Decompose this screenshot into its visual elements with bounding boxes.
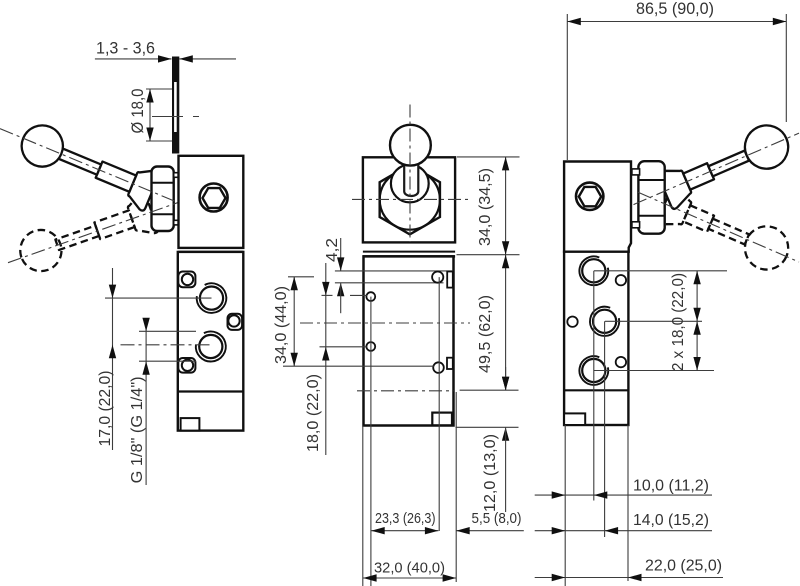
right ext: right edge vertical	[627, 425, 629, 581]
dim 86,5(90,0): arrow right	[773, 18, 787, 25]
dim 14,0(15,2): arrow left	[605, 527, 619, 534]
left view: mounting hole bottom-left	[182, 360, 193, 371]
dim 17,0: center line port2	[121, 344, 212, 346]
left view: dashed lever axis center line	[8, 201, 184, 263]
left view: solid lever axis center line	[0, 129, 185, 206]
dim 18,0(22,0): dim line	[325, 263, 327, 455]
dim dia18: arrow down	[146, 128, 153, 142]
dim 1,3-3,6: arrow left	[158, 55, 172, 62]
dim 34,0(34,5): ext mid	[457, 254, 520, 256]
dim 14,0(15,2): arrow right	[552, 527, 566, 534]
dim 1,3-3,6: line right	[179, 58, 236, 60]
mid ext: left port vertical	[370, 297, 372, 586]
mid view: band line 3	[363, 255, 455, 258]
dim 34,0(34,5): ext top	[457, 156, 520, 158]
dim 34,0(34,5): arrow up	[502, 157, 509, 171]
left view: port G2 (lower)	[196, 331, 226, 361]
mid view: ext line left port upper a	[322, 294, 333, 296]
dim 12,0(13,0): dim line lower	[505, 427, 507, 512]
svg-text:5,5 (8,0): 5,5 (8,0)	[472, 511, 522, 527]
left view: band line	[178, 251, 243, 253]
left view: panel plate	[172, 57, 179, 154]
right view: solid lever axis	[634, 133, 800, 205]
mid view: right edge tab upper	[447, 272, 453, 288]
right view: washer tab upper	[632, 169, 640, 175]
mid view: mounting hole lower-left	[366, 342, 375, 351]
dim 4,2: dim line upper	[340, 238, 342, 271]
left view: panel plate slot	[174, 82, 177, 132]
svg-text:14,0 (15,2): 14,0 (15,2)	[633, 512, 709, 529]
dim 2x18: dim line	[696, 271, 698, 371]
dim 34,0(44,0): dim line	[293, 277, 295, 366]
dim 23,3(26,3): arrow left	[371, 527, 385, 534]
svg-text:12,0 (13,0): 12,0 (13,0)	[482, 434, 499, 512]
right view: base parting line	[564, 389, 628, 391]
mid view: pilot port lower-right	[433, 362, 444, 373]
dim G1/8: ext upper	[139, 330, 196, 332]
dim dia18: ext bottom	[146, 140, 172, 142]
svg-text:86,5 (90,0): 86,5 (90,0)	[636, 0, 714, 18]
dim 22,0(25,0): arrow left	[628, 574, 642, 581]
mid view: collar circle	[391, 165, 429, 203]
right view: dashed lever (lower alternate)	[656, 184, 795, 276]
svg-text:49,5 (62,0): 49,5 (62,0)	[477, 295, 494, 373]
dim 10,0(11,2): arrow right	[552, 491, 566, 498]
dim 34,0(44,0): ext bottom	[283, 365, 434, 367]
dim 34,0(44,0): arrow down	[291, 353, 298, 367]
dim 23,3(26,3): arrow right	[425, 527, 439, 534]
dim 2x18: ext port A	[594, 270, 727, 272]
svg-text:G 1/8" (G 1/4"): G 1/8" (G 1/4")	[129, 376, 146, 483]
svg-text:Ø 18,0: Ø 18,0	[129, 89, 147, 134]
mid view: port tangent line bottom	[335, 282, 444, 284]
right view: pilot hole left of B	[567, 317, 577, 327]
right view: lower body block	[564, 252, 628, 425]
left view: mounting tab bottom-left	[178, 358, 195, 373]
right view: dashed lever axis	[638, 192, 799, 262]
dim 49,5(62,0): arrow up	[502, 255, 509, 269]
right view: hex socket hexagon	[579, 187, 601, 206]
left view: hex socket screw circle	[200, 184, 228, 212]
dim 10,0(11,2): dim line	[535, 494, 712, 496]
svg-text:2 x 18,0 (22,0): 2 x 18,0 (22,0)	[670, 273, 687, 371]
dim 4,2: arrow down	[337, 257, 344, 271]
dim 2x18: arrow down bottom	[693, 357, 700, 371]
mid view: bottom-right notch	[432, 413, 452, 426]
mid view: port tangent line top	[335, 270, 454, 272]
right view: port B	[590, 307, 619, 336]
left view: mounting tab top-left	[178, 272, 195, 288]
dim 12,0(13,0): ext upper	[460, 389, 519, 391]
dim 18,0(22,0): arrow down	[322, 282, 329, 296]
mid view: lower body block	[364, 256, 454, 425]
dim 22,0(25,0): arrow right	[552, 574, 566, 581]
dim 12,0(13,0): ext lower	[456, 426, 519, 428]
mid ext: left edge vertical	[362, 426, 364, 586]
dim 32,0(40,0): arrow left	[363, 574, 377, 581]
dim 34,0(34,5): arrow down	[502, 241, 509, 255]
right view: hex socket circle	[576, 183, 603, 210]
mid view: upper body block	[363, 157, 455, 242]
right ext: left edge vertical	[564, 425, 566, 586]
right view: band line	[564, 250, 628, 253]
mid view: pilot port upper-right	[432, 272, 443, 283]
left view: panel nut	[152, 167, 174, 232]
left view: washer tab upper	[174, 173, 179, 178]
mid view: nut horizontal center line	[352, 198, 468, 200]
dim dia18: ext top	[146, 88, 172, 90]
mid view: ext line left port lower	[320, 346, 367, 348]
dim 10,0(11,2): arrow left	[594, 491, 608, 498]
dim 49,5(62,0): dim line	[505, 255, 507, 391]
right view: upper body block	[564, 162, 631, 252]
dim 12,0(13,0): dim line upper	[505, 367, 507, 390]
dim G1/8: arrow down	[142, 318, 149, 332]
mid view: ball	[390, 125, 431, 166]
svg-text:4,2: 4,2	[324, 238, 341, 262]
dim G1/8: dim line	[145, 318, 147, 485]
left view: lower body block	[178, 252, 244, 431]
dim 2x18: arrow up top	[693, 271, 700, 285]
mid ext: right port vertical	[438, 277, 440, 531]
dim 22,0(25,0): dim line	[535, 577, 723, 579]
dim 12,0(13,0): arrow up	[502, 427, 509, 441]
dim G1/8: arrow up	[142, 361, 149, 375]
dim 18,0(22,0): arrow up	[322, 347, 329, 361]
dim 4,2: dim line lower	[340, 283, 342, 313]
dim 86,5(90,0): arrow left	[567, 18, 581, 25]
svg-text:34,0 (34,5): 34,0 (34,5)	[477, 168, 494, 246]
right view: bottom notch	[564, 413, 585, 425]
right view: panel nut	[638, 161, 664, 234]
mid view: hex nut hexagon	[380, 165, 440, 235]
dim 32,0(40,0): dim line	[363, 577, 456, 579]
left view: mounting hole top-left	[182, 274, 193, 285]
right view: nut facet lower	[638, 215, 664, 217]
dim 14,0(15,2): dim line	[535, 530, 712, 532]
dim 5,5(8,0): arrow	[456, 527, 470, 534]
left view: dashed lever (lower alternate position)	[14, 192, 158, 278]
dim G1/8: ext lower	[139, 360, 196, 362]
right view: pilot hole right of A	[616, 275, 626, 285]
right view: port C	[579, 356, 608, 385]
dim 2x18: ext port C	[594, 370, 714, 372]
dim 17,0: arrow down	[109, 285, 116, 299]
dim 5,5(8,0): lead line	[456, 530, 524, 532]
right view: solid lever (upper)	[656, 119, 795, 211]
svg-text:34,0 (44,0): 34,0 (44,0)	[273, 286, 290, 364]
mid ext: right edge vertical	[455, 392, 457, 582]
right ext: port AC vertical	[593, 271, 595, 501]
dim 4,2: arrow up	[337, 283, 344, 297]
dim 34,0(44,0): arrow up	[291, 277, 298, 291]
plate center line	[152, 116, 199, 118]
mid view: center line mid	[300, 322, 470, 324]
dim 2x18: arrow down mid	[693, 308, 700, 322]
mid view: hex nut inscribed circle	[380, 170, 440, 230]
dim 1,3-3,6: arrow right	[179, 55, 193, 62]
left view: nut facet line upper	[152, 182, 174, 184]
dim 34,0(44,0): ext top	[288, 276, 314, 278]
dim 86,5(90,0): ext left	[566, 14, 568, 160]
right view: nut facet upper	[638, 179, 664, 181]
dim 12,0(13,0): arrow down	[502, 377, 509, 391]
mid view: stem	[404, 161, 418, 196]
left view: hex socket hexagon	[203, 188, 226, 208]
dim 49,5(62,0): arrow down	[502, 377, 509, 391]
dim 17,0: ext line upper (port1 center)	[105, 297, 212, 299]
dim 1,3-3,6: line left	[95, 58, 172, 60]
dim 2x18: ext port B	[605, 320, 702, 322]
svg-text:22,0 (25,0): 22,0 (25,0)	[645, 558, 722, 575]
left view: washer tab lower	[174, 220, 179, 225]
mid view: band line 2	[363, 251, 455, 253]
mid view: base center line	[357, 390, 454, 392]
dim right chain: dim line	[505, 157, 507, 255]
dim 23,3(26,3): dim line	[371, 530, 438, 532]
svg-text:23,3 (26,3): 23,3 (26,3)	[375, 511, 436, 527]
right view: port A	[579, 256, 608, 285]
dim 2x18: arrow up mid	[693, 321, 700, 335]
mid view: mounting hole upper-left	[366, 292, 375, 301]
left view: base parting line	[178, 390, 244, 392]
mid view: ext line left port upper b	[350, 294, 367, 296]
mid view: vertical center line	[409, 105, 411, 243]
dim 17,0: arrow up	[109, 345, 116, 359]
mid view: right edge tab lower	[447, 358, 453, 369]
left view: mounting tab right	[228, 314, 243, 330]
dim dia18: arrow up	[146, 89, 153, 103]
svg-text:18,0 (22,0): 18,0 (22,0)	[305, 374, 322, 452]
dim 17,0: dim line	[112, 268, 114, 450]
right ext: port B vertical	[604, 321, 606, 537]
right view: pilot hole right of C	[616, 357, 626, 367]
left view: nut facet line lower	[152, 213, 174, 215]
left view: solid lever (upper position)	[15, 118, 160, 211]
svg-text:32,0 (40,0): 32,0 (40,0)	[374, 561, 445, 577]
left view: mounting hole right	[228, 315, 239, 326]
dim 86,5(90,0): dim line	[567, 21, 786, 23]
svg-text:10,0 (11,2): 10,0 (11,2)	[633, 478, 709, 495]
left view: upper body block	[179, 156, 244, 248]
left view: port G1 (upper)	[197, 283, 227, 313]
dim dia18: dim line	[149, 89, 151, 141]
left view: bottom notch	[181, 418, 200, 431]
dim 32,0(40,0): arrow right	[443, 574, 457, 581]
svg-text:1,3 - 3,6: 1,3 - 3,6	[96, 39, 155, 58]
svg-text:17,0 (22,0): 17,0 (22,0)	[97, 371, 114, 447]
dim 86,5(90,0): ext right	[785, 14, 787, 122]
right view: washer tab lower	[632, 222, 640, 228]
